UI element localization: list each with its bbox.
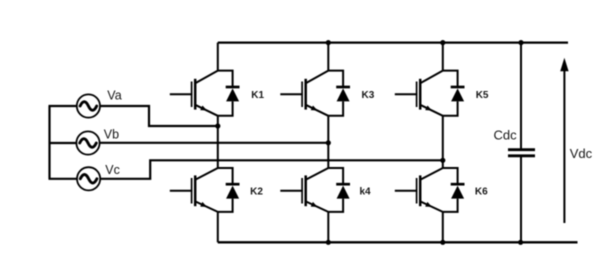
svg-text:K5: K5 bbox=[476, 90, 489, 101]
IGBT K3 bbox=[280, 71, 328, 116]
node: top bus / leg 3 bbox=[440, 40, 445, 45]
svg-text:Vb: Vb bbox=[104, 128, 119, 142]
Vdc arrow bbox=[560, 58, 568, 223]
wire: phase leg 3 vertical bbox=[442, 43, 444, 243]
wire: Va to leg 1 midpoint bbox=[100, 106, 218, 126]
svg-text:Vc: Vc bbox=[105, 163, 120, 177]
node: bottom bus / Cdc bbox=[518, 240, 523, 245]
wire: left neutral bus bbox=[48, 106, 50, 179]
node: top bus / Cdc bbox=[518, 40, 523, 45]
svg-text:Vdc: Vdc bbox=[570, 146, 593, 161]
svg-text:K2: K2 bbox=[250, 187, 263, 198]
freewheeling diode of K1 bbox=[218, 71, 240, 116]
svg-text:Cdc: Cdc bbox=[494, 127, 518, 142]
IGBT K6 bbox=[395, 168, 443, 212]
node: top bus / leg 2 bbox=[326, 40, 331, 45]
freewheeling diode of K5 bbox=[443, 71, 465, 116]
svg-text:K6: K6 bbox=[475, 186, 488, 197]
IGBT K1 bbox=[170, 71, 218, 116]
wire: phase leg 2 vertical bbox=[327, 43, 329, 243]
AC source Vc bbox=[77, 167, 100, 190]
freewheeling diode of K4 bbox=[328, 168, 350, 212]
wire: phase leg 1 vertical bbox=[217, 43, 219, 243]
wire: Vb left lead bbox=[49, 142, 77, 144]
wire: Va left lead bbox=[49, 105, 77, 107]
node: bottom bus / leg 2 bbox=[326, 240, 331, 245]
node C: leg 3 midpoint bbox=[440, 158, 445, 163]
IGBT K2 bbox=[170, 168, 218, 212]
freewheeling diode of K6 bbox=[443, 168, 465, 212]
node A: leg 1 midpoint bbox=[215, 123, 220, 128]
wire: top DC bus bbox=[218, 41, 568, 43]
capacitor Cdc bbox=[508, 43, 535, 243]
svg-text:K1: K1 bbox=[251, 90, 264, 101]
svg-text:K3: K3 bbox=[362, 90, 375, 101]
wire: Vc to leg 3 midpoint bbox=[100, 160, 443, 179]
svg-text:Va: Va bbox=[107, 89, 121, 103]
svg-text:k4: k4 bbox=[360, 186, 372, 197]
wire: Vc left lead bbox=[49, 178, 78, 180]
wire: bottom DC bus bbox=[218, 241, 578, 243]
IGBT K4 bbox=[280, 168, 328, 212]
node B: leg 2 midpoint bbox=[326, 140, 331, 145]
freewheeling diode of K3 bbox=[328, 71, 350, 116]
wire: Vb to leg 2 midpoint bbox=[100, 142, 329, 144]
freewheeling diode of K2 bbox=[218, 168, 240, 212]
IGBT K5 bbox=[395, 71, 443, 116]
node: bottom bus / leg 3 bbox=[440, 240, 445, 245]
AC source Va bbox=[77, 94, 100, 117]
AC source Vb bbox=[76, 131, 99, 154]
